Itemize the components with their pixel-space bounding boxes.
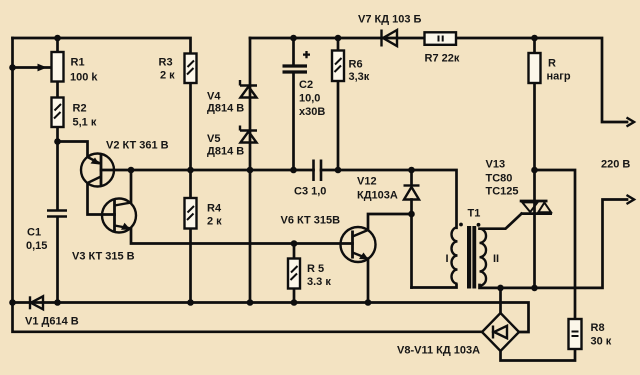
- arrow wiper of R1: [38, 64, 48, 72]
- svg-text:ТС80: ТС80: [486, 173, 513, 185]
- wire R-load column through triac: [533, 38, 536, 288]
- wire R3 bottom to R4 top: [189, 83, 192, 198]
- wire R5 bottom lead: [293, 289, 296, 303]
- wire R1 wiper from left rail: [13, 66, 52, 69]
- wire main bottom rail: [13, 303, 529, 333]
- svg-text:х30В: х30В: [299, 106, 325, 118]
- diode V12: [404, 186, 420, 200]
- svg-text:V13: V13: [486, 159, 506, 171]
- svg-text:10,0: 10,0: [299, 93, 320, 105]
- svg-text:ТС125: ТС125: [486, 186, 519, 198]
- resistor R4: [185, 198, 197, 229]
- capacitor C2: [283, 66, 308, 72]
- svg-text:I: I: [446, 253, 449, 265]
- wire left vertical and bottom-left return to bridge: [13, 38, 483, 332]
- svg-text:R3: R3: [159, 57, 173, 69]
- wire R5 top lead: [293, 244, 296, 259]
- svg-text:100 k: 100 k: [70, 72, 98, 84]
- wire V12 cathode lead: [410, 170, 413, 185]
- wire R1-R2 link: [56, 82, 59, 98]
- svg-text:V5: V5: [207, 133, 220, 145]
- resistor R load: [529, 53, 541, 83]
- svg-text:R4: R4: [207, 203, 222, 215]
- transformer T1 winding II: [480, 229, 487, 286]
- wire triac gate to winding II: [480, 214, 522, 229]
- transistor V3: [102, 199, 136, 233]
- svg-text:нагр: нагр: [547, 71, 571, 83]
- wire R8 branch from triac node: [535, 170, 576, 319]
- svg-text:0,15: 0,15: [26, 240, 47, 252]
- wire bridge bottom to R8 bottom: [501, 349, 576, 361]
- svg-text:V6 КТ 315В: V6 КТ 315В: [281, 215, 341, 227]
- svg-text:R7 22к: R7 22к: [425, 53, 460, 65]
- wire R1 top lead: [56, 38, 59, 52]
- svg-text:V1 Д614 В: V1 Д614 В: [25, 316, 79, 328]
- svg-text:2 к: 2 к: [160, 70, 175, 82]
- svg-text:Д814 В: Д814 В: [207, 146, 244, 158]
- diode V7: [382, 30, 398, 47]
- wire V6 collector to V12 node: [368, 214, 412, 230]
- wire node R2/C1 to V2 emitter: [58, 142, 88, 158]
- svg-text:30 к: 30 к: [591, 336, 612, 348]
- diode V1: [30, 296, 43, 309]
- transistor V2: [81, 154, 114, 187]
- wire C1 top lead: [56, 142, 59, 210]
- zener V5: [240, 126, 257, 143]
- wire C3 right to transformer primary top: [321, 170, 457, 228]
- wire mid rail y170: [131, 169, 314, 172]
- svg-text:V3 КТ 315 В: V3 КТ 315 В: [72, 251, 135, 263]
- resistor R3: [185, 54, 197, 84]
- capacitor C3: [314, 160, 322, 182]
- wire bridge top lead: [499, 288, 502, 313]
- svg-text:C2: C2: [299, 79, 313, 91]
- svg-text:R1: R1: [71, 57, 85, 69]
- resistor R2: [52, 98, 64, 128]
- triac V13: [520, 201, 552, 214]
- svg-text:V8-V11 КД 103А: V8-V11 КД 103А: [397, 345, 480, 357]
- transformer T1 core: [467, 226, 471, 289]
- transformer phasing dot II: [477, 223, 481, 227]
- arrow 220V bottom: [627, 195, 635, 204]
- resistor R1 (potentiometer): [52, 52, 64, 82]
- wire V6 emitter down: [367, 259, 370, 303]
- wire V2 collector to V3 base: [88, 183, 115, 215]
- wire V3 emitter down and across: [131, 229, 353, 244]
- diode bridge V8-V11: [482, 313, 519, 351]
- zener V4: [240, 80, 257, 98]
- arrow 220V top: [627, 118, 635, 127]
- svg-text:220 В: 220 В: [601, 159, 630, 171]
- wire V12 anode lead down: [410, 200, 413, 288]
- svg-text:R8: R8: [591, 322, 605, 334]
- wire V3 collector up: [130, 170, 133, 203]
- wire R2 bottom lead: [56, 127, 59, 142]
- svg-text:Д814 В: Д814 В: [207, 103, 244, 115]
- svg-text:С3 1,0: С3 1,0: [294, 186, 326, 198]
- wire winding II bottom rail to 220V arrow: [480, 200, 628, 288]
- transformer phasing dot I: [459, 223, 463, 227]
- svg-text:R: R: [548, 58, 556, 70]
- wire C1 bottom lead: [56, 217, 59, 303]
- svg-text:V4: V4: [207, 91, 221, 103]
- svg-text:V12: V12: [357, 176, 377, 188]
- svg-text:КД103А: КД103А: [357, 190, 398, 202]
- resistor R8: [569, 319, 582, 349]
- svg-text:3.3 к: 3.3 к: [307, 276, 331, 288]
- svg-text:R2: R2: [73, 103, 87, 115]
- wire C2 top lead: [292, 38, 295, 65]
- wire R4 bottom lead: [189, 229, 192, 303]
- resistor R5: [288, 259, 300, 289]
- wire top-left rail: [13, 38, 191, 54]
- svg-text:2 к: 2 к: [207, 216, 222, 228]
- resistor R7: [425, 32, 457, 45]
- svg-text:R 5: R 5: [307, 263, 324, 275]
- wire R6 bottom lead: [337, 81, 340, 170]
- wire V2 base lead: [101, 169, 131, 172]
- wire R6 top lead: [337, 38, 340, 51]
- transistor V6: [341, 227, 376, 262]
- svg-text:5,1 к: 5,1 к: [73, 117, 97, 129]
- wire top-right rail to 220V arrow: [250, 38, 627, 122]
- wire C2 bottom lead: [292, 74, 295, 170]
- wire winding I bottom to V12 anode: [412, 285, 457, 288]
- svg-text:3,3к: 3,3к: [349, 71, 370, 83]
- svg-text:II: II: [493, 253, 499, 265]
- svg-text:T1: T1: [468, 208, 481, 220]
- capacitor C1: [47, 211, 67, 217]
- wire V4 V5 column: [249, 38, 252, 303]
- resistor R6: [332, 51, 344, 82]
- svg-text:R6: R6: [349, 59, 363, 71]
- svg-text:V7 КД 103 Б: V7 КД 103 Б: [358, 14, 422, 26]
- svg-text:C1: C1: [27, 227, 41, 239]
- transformer T1 winding I: [452, 227, 458, 283]
- svg-text:V2 КТ 361 В: V2 КТ 361 В: [106, 140, 169, 152]
